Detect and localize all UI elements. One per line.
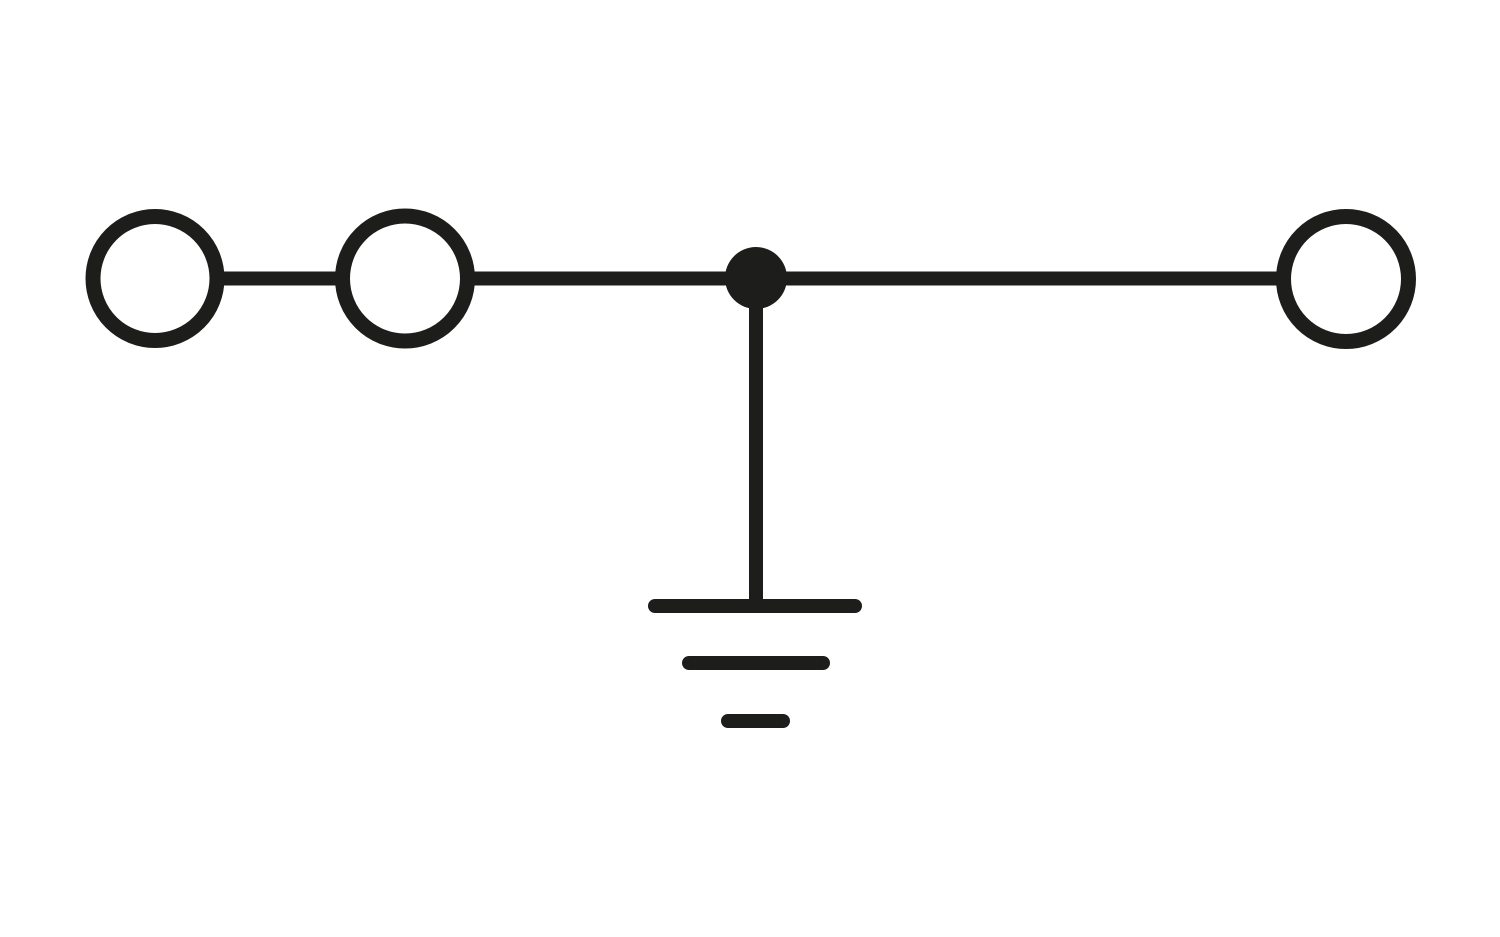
ground bar 3 (bottom, shortest): [728, 714, 783, 728]
wire: junction down to ground: [749, 278, 763, 606]
ground bar 2 (middle): [689, 656, 823, 670]
terminal circle 1 (left clamp point): [93, 217, 217, 341]
terminal circle 3 (right clamp point): [1284, 217, 1409, 342]
ground bar 1 (top, widest): [655, 599, 855, 613]
terminal circle 2 (second clamp point): [343, 216, 468, 341]
junction node (solder dot): [725, 247, 787, 309]
wire: junction to circle 3: [756, 272, 1285, 286]
wire: circle 2 to junction: [466, 272, 756, 286]
wire: circle 1 to circle 2: [216, 272, 344, 286]
